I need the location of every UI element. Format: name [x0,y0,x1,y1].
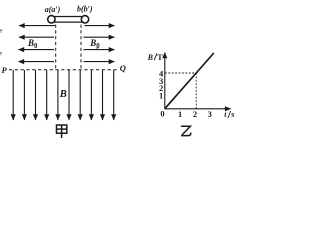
svg-text:Q: Q [120,63,126,73]
svg-text:2: 2 [193,109,197,119]
dashed boundary right [80,25,82,70]
svg-text:1: 1 [178,109,182,119]
B0 field arrows right (pointing right) [84,26,115,62]
ring a [48,16,55,23]
B-t line [165,53,214,109]
svg-text:1: 1 [159,90,163,100]
y axis [164,53,166,109]
svg-text:B: B [147,53,154,62]
scan specks on left edge [0,30,2,31]
svg-text:a(a′): a(a′) [45,5,61,14]
svg-text:0: 0 [160,109,164,119]
svg-text:s: s [231,110,234,119]
svg-text:3: 3 [208,109,212,119]
ring b [81,16,88,23]
dashed guide horizontal at B=4 [165,72,196,74]
caption 甲 (drawn) [57,125,67,138]
dashed line P-Q [9,69,119,71]
dashed boundary left [55,25,57,70]
svg-text:b(b′): b(b′) [77,5,93,14]
caption 乙 (drawn) [181,126,191,135]
svg-text:B: B [59,89,67,100]
svg-text:T: T [157,53,163,62]
B field down arrows [13,70,114,120]
speck after right B0 [97,48,98,49]
dashed guide vertical at t=2 [195,73,197,109]
x axis [165,108,231,110]
conducting rod bar [53,17,84,23]
B0 field arrows left (pointing left) [19,26,56,62]
svg-text:P: P [2,65,8,75]
